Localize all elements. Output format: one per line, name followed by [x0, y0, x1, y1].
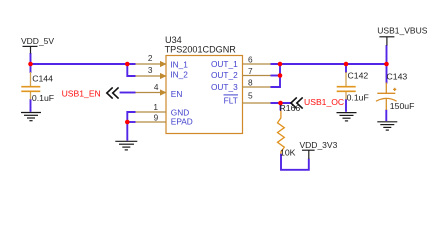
svg-text:1: 1 — [153, 102, 158, 112]
svg-text:3: 3 — [148, 65, 153, 75]
svg-text:USB1_VBUS: USB1_VBUS — [377, 26, 427, 36]
svg-text:C142: C142 — [348, 71, 369, 81]
svg-text:C144: C144 — [32, 74, 53, 84]
svg-text:0.1uF: 0.1uF — [32, 93, 54, 103]
svg-text:IN_1: IN_1 — [170, 59, 188, 69]
svg-text:0.1uF: 0.1uF — [347, 93, 369, 103]
svg-text:TPS2001CDGNR: TPS2001CDGNR — [165, 45, 237, 55]
svg-text:2: 2 — [148, 53, 153, 63]
svg-text:IN_2: IN_2 — [170, 70, 188, 80]
svg-text:FLT: FLT — [224, 95, 238, 105]
svg-text:EPAD: EPAD — [171, 116, 193, 126]
svg-text:U34: U34 — [165, 35, 182, 45]
svg-text:7: 7 — [248, 66, 253, 76]
svg-text:OUT_2: OUT_2 — [211, 70, 238, 80]
svg-text:EN: EN — [171, 89, 183, 99]
svg-text:6: 6 — [248, 54, 253, 64]
svg-text:8: 8 — [248, 77, 253, 87]
svg-text:VDD_3V3: VDD_3V3 — [300, 140, 338, 150]
svg-text:R166: R166 — [280, 103, 301, 113]
svg-text:10K: 10K — [280, 147, 296, 157]
svg-text:OUT_3: OUT_3 — [211, 82, 238, 92]
svg-text:C143: C143 — [387, 72, 408, 82]
svg-text:OUT_1: OUT_1 — [211, 59, 238, 69]
svg-text:5: 5 — [248, 90, 253, 100]
svg-text:VDD_5V: VDD_5V — [21, 36, 54, 46]
svg-text:9: 9 — [154, 112, 159, 122]
svg-text:4: 4 — [154, 82, 159, 92]
svg-text:150uF: 150uF — [390, 101, 415, 111]
svg-text:USB1_EN: USB1_EN — [62, 89, 101, 99]
svg-text:USB1_OC: USB1_OC — [304, 97, 344, 107]
